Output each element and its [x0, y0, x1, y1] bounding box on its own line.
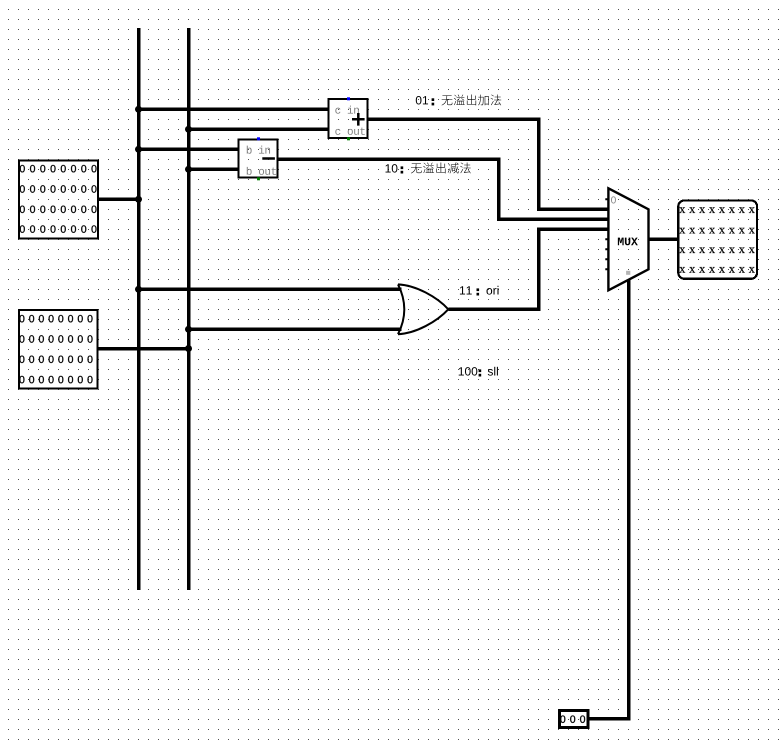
wire OR output to MUX in2	[449, 229, 609, 309]
output pin (8-bit, value xxxxxxxx)	[678, 200, 757, 278]
input pin B (8-bit, value 00000000)	[19, 310, 98, 389]
input pin A (8-bit, value 00000000)	[19, 161, 98, 239]
wire adder input A	[139, 108, 329, 112]
wire bus1 vertical	[137, 28, 141, 590]
junction bus2/pin2	[185, 345, 192, 352]
wire OR input B	[189, 328, 402, 332]
label 01: add no overflow	[416, 94, 501, 105]
multiplexer MUX U4	[605, 188, 648, 290]
wire subtractor input A	[139, 148, 239, 152]
constant 000 (select)	[560, 711, 589, 728]
wire OR input A	[139, 288, 402, 292]
junction bus1/adder A	[135, 106, 142, 113]
wire subtractor input B	[189, 168, 239, 172]
junction bus1/OR A	[135, 286, 142, 293]
subtractor U2	[239, 137, 278, 180]
wire MUX output	[649, 238, 679, 242]
wire adder output to MUX in0	[369, 119, 609, 209]
label 100: sll	[459, 367, 498, 377]
label 11: ori	[460, 286, 499, 296]
wire subtractor output to MUX in1	[279, 159, 609, 219]
OR gate U3	[398, 284, 448, 334]
junction bus2/adder B	[185, 126, 192, 133]
junction bus2/sub B	[185, 166, 192, 173]
adder U1	[329, 97, 368, 140]
wire pin2 to bus2	[98, 347, 188, 351]
label 10: sub no overflow	[386, 162, 471, 173]
wire select constant to MUX	[589, 280, 629, 719]
junction bus1/pin1	[135, 196, 142, 203]
wire adder input B	[189, 128, 329, 132]
junction bus1/sub A	[135, 146, 142, 153]
wire pin1 to bus1	[99, 198, 139, 202]
wire bus2 vertical	[187, 28, 191, 590]
junction bus2/OR B	[185, 326, 192, 333]
